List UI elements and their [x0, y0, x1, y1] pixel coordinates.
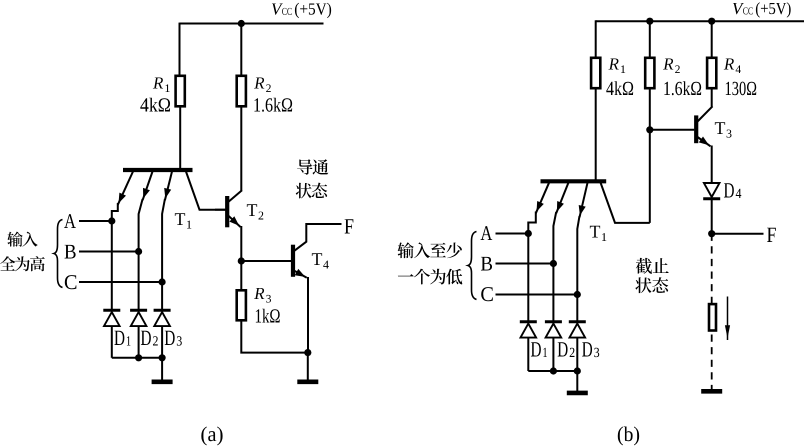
dashed load path (b) — [711, 234, 713, 390]
wire Vcc to R2b — [649, 20, 651, 58]
junction R4/Vcc — [708, 18, 715, 25]
node T2 emitter / R3 / T4 base (a) — [238, 257, 245, 264]
node C (b) — [574, 291, 581, 298]
value 130Ω (b) — [726, 82, 756, 96]
wire D3 to bus (b) — [576, 338, 578, 372]
label output F (a) — [345, 219, 354, 233]
junction D2/bus (a) — [135, 354, 142, 361]
resistor R3 (a) — [237, 290, 246, 320]
ground (a input side) — [152, 379, 173, 384]
T2 emitter arrow (a) — [229, 216, 241, 227]
wire R2a to T2 collector — [240, 106, 242, 190]
resistor R2 (b) — [645, 58, 654, 88]
value 4kΩ (a) — [140, 98, 170, 112]
wire Vcc to R1b — [595, 20, 597, 58]
wire R1a to T1a base bar — [179, 106, 181, 170]
wire input B (a) — [79, 251, 139, 253]
label D3 (b) — [582, 342, 599, 357]
T1 emitter 2 (b) — [556, 183, 568, 214]
text 输入至少 (b) — [398, 242, 462, 258]
label R2 (b) — [663, 58, 680, 73]
wire T1 collector (b) — [601, 183, 650, 223]
wire input C (a) — [79, 281, 162, 283]
wire D2 to bus (a) — [138, 326, 140, 358]
text 状态 (a) — [296, 183, 328, 199]
wire T4 emitter down (a) — [307, 277, 309, 353]
transistor T1 base bar (b) — [541, 179, 607, 183]
text 导通 (a) — [297, 159, 328, 175]
wire input B (b) — [496, 263, 554, 265]
wire T1b emitter1 jog to node A — [528, 212, 536, 234]
wire T1 collector (a) — [186, 171, 227, 210]
junction D3/bus (b) — [574, 367, 581, 374]
wire D1 to bus (a) — [111, 326, 113, 358]
text 截止 (b) — [636, 258, 669, 274]
wire node C to D3 (a) — [161, 282, 163, 310]
input brace (a) — [54, 220, 63, 288]
wire R2b to T1b collector — [649, 88, 651, 223]
wire R3 to ground rail (a) — [241, 320, 307, 352]
diode D2 (a) — [130, 310, 147, 326]
wire R1b to T1b base bar — [595, 88, 597, 181]
wire T1b emitter2 to node B — [553, 212, 556, 264]
wire T1 emitter2 to node B (a) — [139, 199, 143, 252]
wire to F (b) — [712, 233, 764, 235]
label input A (b) — [481, 226, 493, 240]
T1 emitter 3 (a) — [164, 172, 172, 201]
label D1 (b) — [531, 342, 547, 357]
wire node to R3 (a) — [240, 261, 242, 291]
net label Vcc(+5V) (a) — [272, 3, 331, 18]
diode D1 (b) — [520, 322, 537, 338]
T1 emitter 1 (b) — [536, 183, 549, 214]
text 全为高 (a) — [0, 256, 45, 271]
node C (a) — [159, 278, 166, 285]
label R3 (a) — [254, 288, 271, 303]
resistor R2 (a) — [237, 76, 246, 107]
transistor T3 base bar (b) — [694, 115, 698, 143]
wire Vcc rail (a) — [180, 23, 324, 25]
load box (b) — [709, 304, 716, 330]
wire R4 to T3 collector — [711, 88, 713, 106]
wire D1 to bus (b) — [527, 338, 529, 372]
node B (b) — [550, 260, 557, 267]
wire D4 to node F (b) — [711, 199, 713, 234]
label T3 (b) — [715, 122, 732, 137]
text 一个为低 (b) — [398, 269, 462, 285]
wire junction to ground (a) — [307, 353, 309, 380]
label input C (a) — [65, 275, 77, 289]
wire bus to ground (a) — [161, 358, 163, 380]
T1 emitter 1 (a) — [118, 172, 133, 205]
node R2b / T3 base (b) — [646, 126, 653, 133]
caption (a) — [201, 427, 222, 446]
diode D3 (a) — [154, 310, 171, 326]
value 1.6kΩ (a) — [254, 98, 292, 112]
wire input C (b) — [496, 294, 578, 296]
transistor T1 base bar (a) — [123, 168, 193, 172]
wire Vcc to R2a — [240, 23, 242, 76]
resistor R1 (b) — [591, 58, 600, 88]
node A (a) — [108, 217, 115, 224]
transistor T2 base bar (a) — [225, 196, 229, 227]
wire T2 emitter to node (a) — [240, 226, 242, 261]
T4 collector (a) — [294, 224, 341, 251]
caption (b) — [618, 427, 639, 446]
wire Vcc to R1a — [179, 23, 181, 76]
label T2 (a) — [247, 204, 263, 219]
wire diode ground bus (b) — [528, 370, 577, 372]
node F (b) — [708, 230, 715, 237]
wire T1 emitter1 jog to node A (a) — [112, 203, 118, 221]
T1 emitter 3 (b) — [579, 183, 588, 218]
resistor R4 (b) — [707, 58, 716, 88]
label D1 (a) — [114, 331, 130, 346]
value 1kΩ (a) — [256, 309, 280, 323]
label R2 (a) — [254, 77, 271, 92]
wire input A (a) — [79, 220, 112, 222]
value 1.6kΩ (b) — [664, 81, 701, 95]
wire node B to D2 (b) — [552, 264, 554, 322]
wire node to T4 base (a) — [241, 260, 291, 262]
label R4 (b) — [724, 58, 741, 73]
input brace (b) — [468, 232, 477, 300]
wire T1 collector to T2 base (a) — [215, 209, 225, 211]
diode D2 (b) — [545, 322, 562, 338]
junction D3/bus (a) — [159, 354, 166, 361]
node junction R2a/Vcc rail — [238, 20, 245, 27]
wire node A to D1 (a) — [111, 221, 113, 310]
wire Vcc rail (b) — [596, 20, 804, 22]
wire T1b emitter3 to node C — [577, 216, 579, 295]
ground (b output side) — [701, 389, 722, 394]
resistor R1 (a) — [176, 76, 185, 107]
text 状态 (b) — [635, 277, 668, 293]
wire T3 emitter to D4 (b) — [711, 146, 713, 184]
label D2 (b) — [558, 342, 575, 357]
label T1 (b) — [590, 226, 606, 241]
wire D3 to bus (a) — [161, 326, 163, 358]
T2 collector (a) — [229, 190, 243, 202]
label input B (a) — [65, 245, 76, 259]
label input C (b) — [481, 287, 493, 301]
wire node A to D1 (b) — [527, 234, 529, 322]
junction R2b/Vcc — [646, 18, 653, 25]
label output F (b) — [767, 228, 776, 242]
wire node C to D3 (b) — [576, 295, 578, 322]
label D4 (b) — [724, 183, 741, 198]
label input B (b) — [481, 257, 492, 271]
net label Vcc(+5V) (b) — [733, 2, 791, 17]
T3 emitter arrow (b) — [698, 137, 711, 147]
value 4kΩ (b) — [606, 81, 633, 95]
label T4 (a) — [312, 253, 329, 268]
junction D2/bus (b) — [550, 367, 557, 374]
wire bus to ground (b) — [576, 371, 578, 392]
wire T3 base (b) — [650, 129, 695, 131]
T1 emitter 2 (a) — [143, 172, 153, 201]
T4 emitter arrow (a) — [294, 269, 307, 278]
wire Vcc to R4 — [711, 20, 713, 58]
wire node B to D2 (a) — [138, 252, 140, 311]
label input A (a) — [64, 214, 76, 228]
wire T1 emitter3 to node C (a) — [162, 199, 165, 282]
text 输入 (a) — [7, 232, 37, 247]
ground (b input side) — [567, 391, 588, 396]
junction T4 emitter/ground (a) — [304, 349, 311, 356]
wire D2 to bus (b) — [552, 338, 554, 372]
node A (b) — [525, 230, 532, 237]
label D2 (a) — [141, 331, 158, 346]
T3 collector (b) — [698, 106, 713, 121]
label D3 (a) — [165, 331, 182, 346]
node B (a) — [135, 248, 142, 255]
label T1 (a) — [175, 213, 191, 228]
diode D4 (b) — [703, 183, 720, 199]
wire diode ground bus (a) — [112, 357, 162, 359]
current arrow (b) — [725, 297, 730, 341]
label R1 (b) — [608, 58, 625, 73]
transistor T4 base bar (a) — [291, 245, 295, 277]
ground (a output side) — [297, 379, 318, 384]
diode D3 (b) — [569, 322, 586, 338]
label R1 (a) — [153, 77, 170, 92]
diode D1 (a) — [103, 310, 120, 326]
wire input A (b) — [496, 233, 529, 235]
